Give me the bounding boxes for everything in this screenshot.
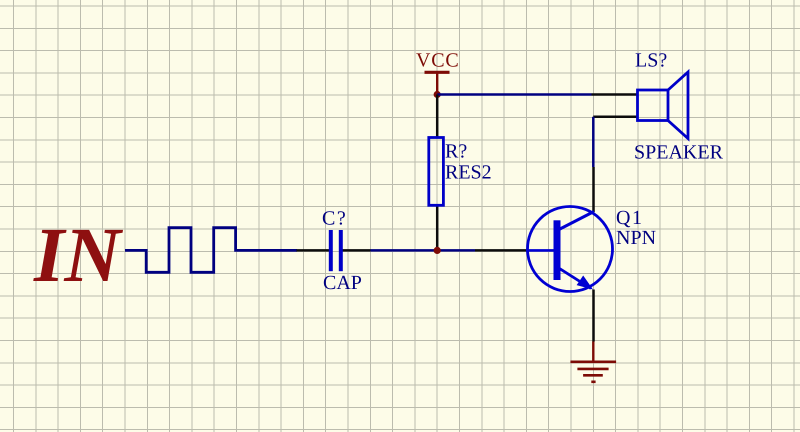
svg-text:NPN: NPN (616, 227, 656, 249)
wire speaker pin 2 to collector (592, 117, 595, 167)
speaker pins (592, 95, 638, 117)
capacitor C1 pins (297, 249, 371, 252)
svg-text:IN: IN (33, 211, 123, 298)
ground stem (592, 342, 594, 362)
wire VCC node to speaker pin 1 (437, 93, 591, 96)
svg-text:LS?: LS? (635, 50, 667, 72)
svg-text:SPEAKER: SPEAKER (634, 142, 724, 164)
transistor Q1 emitter arrow (577, 276, 593, 290)
svg-text:CAP: CAP (323, 272, 362, 294)
wire cap to node A (371, 249, 476, 252)
svg-text:RES2: RES2 (445, 162, 492, 184)
transistor Q1 body (526, 207, 613, 292)
svg-text:VCC: VCC (416, 50, 460, 72)
svg-text:Q1: Q1 (616, 207, 643, 229)
resistor R1 pins (436, 95, 439, 251)
square wave input annotation (125, 228, 297, 273)
transistor Q1 base bar (554, 220, 561, 280)
power VCC bar and stem (425, 72, 450, 94)
svg-text:C?: C? (322, 208, 347, 230)
svg-text:R?: R? (445, 140, 467, 162)
transistor Q1 emitter pin (592, 290, 595, 342)
speaker body (638, 72, 689, 139)
junction node VCC (434, 91, 441, 98)
transistor Q1 collector pin (592, 167, 595, 212)
ground bars (570, 362, 616, 382)
junction node A (434, 247, 441, 254)
resistor R1 body (429, 138, 444, 206)
capacitor C1 plates (331, 230, 341, 271)
transistor Q1 base pin (475, 249, 528, 252)
